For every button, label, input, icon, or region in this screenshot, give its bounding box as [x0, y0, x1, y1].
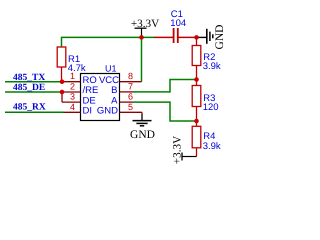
svg-text:104: 104	[170, 18, 186, 29]
svg-text:485_RX: 485_RX	[13, 102, 46, 112]
resistor R4	[192, 121, 201, 157]
power +3.3V top port	[135, 28, 147, 37]
wire R1 riser	[61, 37, 63, 48]
svg-text:485_DE: 485_DE	[13, 83, 45, 93]
svg-text:DI: DI	[83, 106, 93, 117]
resistor R2	[192, 37, 201, 79]
svg-text:3: 3	[70, 92, 75, 102]
pin 6 A	[111, 92, 133, 107]
resistor R1	[57, 47, 66, 82]
svg-text:GND: GND	[214, 25, 226, 50]
pin 4 DI	[64, 102, 93, 117]
junction +3.3V rail	[139, 35, 144, 40]
svg-text:U1: U1	[105, 63, 117, 73]
junction R2 / R3 / B	[194, 77, 199, 82]
wire VCC riser to pin 8	[141, 37, 143, 81]
svg-text:3.9k: 3.9k	[203, 61, 221, 72]
svg-text:GND: GND	[130, 129, 155, 141]
svg-text:+3.3V: +3.3V	[171, 136, 183, 164]
resistor R3	[192, 80, 201, 122]
svg-text:6: 6	[128, 92, 133, 102]
power +3.3V bottom port	[182, 153, 197, 161]
junction 485_TX / R1	[60, 79, 65, 84]
pin 3 DE with tie from pin 2	[62, 92, 96, 107]
IC U1 body	[81, 74, 120, 121]
wire pin6 A to R3 bottom	[133, 102, 197, 121]
svg-text:1: 1	[70, 71, 75, 81]
pin 8 VCC	[99, 71, 142, 86]
junction R3 / R4 / A	[194, 119, 199, 124]
wire junction to right GND	[197, 36, 207, 38]
wire top rail from R1 to +3.3V to C1	[62, 36, 155, 38]
svg-text:3.9k: 3.9k	[203, 141, 221, 152]
wire net 485_DE	[5, 91, 62, 93]
pin 2 /RE	[62, 81, 98, 96]
junction 485_DE / pin3 tie	[60, 90, 65, 95]
svg-text:7: 7	[128, 81, 133, 91]
pin 7 B	[111, 81, 133, 96]
pin 1 RO	[62, 71, 97, 86]
svg-text:+3.3V: +3.3V	[131, 18, 159, 30]
capacitor C1	[154, 28, 197, 43]
svg-text:GND: GND	[97, 106, 118, 117]
ground symbol below U1	[133, 121, 152, 126]
svg-text:485_TX: 485_TX	[13, 73, 45, 83]
junction C1 / R2 / GND	[194, 35, 199, 40]
svg-text:4: 4	[70, 102, 75, 112]
wire pin7 B to R3 top	[133, 80, 197, 92]
svg-text:2: 2	[70, 81, 75, 91]
wire net 485_RX	[5, 111, 64, 113]
svg-text:8: 8	[128, 71, 133, 81]
svg-text:5: 5	[128, 102, 133, 112]
svg-text:120: 120	[203, 102, 219, 113]
wire net 485_TX	[5, 81, 62, 83]
ground symbol right (rotated earth)	[207, 29, 213, 44]
pin 5 GND	[97, 102, 142, 121]
